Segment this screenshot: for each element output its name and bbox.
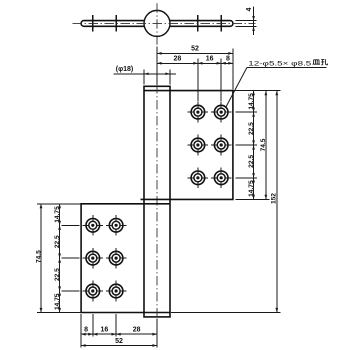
svg-text:152: 152 [271,193,278,204]
right plate screw hole row 2 col 1 (countersunk) [188,135,209,156]
svg-text:52: 52 [115,338,123,345]
dim 28 16 8 [157,62,233,64]
svg-text:14.75: 14.75 [248,93,255,110]
top view barrel circle [144,10,170,36]
top view horizontal centerline [73,22,256,24]
svg-text:8: 8 [84,326,88,333]
svg-text:22.5: 22.5 [248,155,255,168]
left plate screw hole row 1 col 1 (countersunk) [83,215,104,236]
svg-text:14.75: 14.75 [248,180,255,197]
barrel top cap line [144,90,170,92]
extension lines bottom [80,314,82,348]
extension plate top to right [233,90,281,92]
hole tick [220,15,222,31]
extension lines right rows [236,111,258,113]
svg-text:16: 16 [101,326,109,333]
svg-text:22.5: 22.5 [54,235,61,248]
barrel bottom cap line [144,312,170,314]
dim 74.5 right [265,91,267,200]
right plate screw hole row 3 col 1 (countersunk) [188,168,209,189]
svg-text:8: 8 [226,56,230,63]
extension left plate top [37,203,81,205]
left plate screw hole row 3 col 2 (countersunk) [106,281,127,302]
top view: leaf bar seen from above [81,21,233,27]
right plate screw hole row 1 col 1 (countersunk) [188,102,209,123]
svg-text:14.75: 14.75 [54,293,61,310]
extension lines hole columns (right) [197,59,199,102]
svg-text:28: 28 [174,56,182,63]
extension right plate bottom [236,198,270,200]
svg-text:52: 52 [191,46,199,53]
svg-text:74.5: 74.5 [35,250,42,263]
right plate screw hole row 1 col 2 (countersunk) [211,102,232,123]
left plate screw hole row 2 col 1 (countersunk) [83,248,104,269]
svg-text:22.5: 22.5 [54,268,61,281]
extension left plate bottom [37,312,81,314]
extension left plate bottom to right [171,312,281,314]
dim 8 16 28 bottom [81,333,157,335]
dim 52 top [157,52,233,54]
svg-text:28: 28 [133,326,141,333]
hole tick [197,15,199,31]
barrel (knuckle) outline [144,86,170,317]
svg-text:14.75: 14.75 [54,206,61,223]
left plate screw hole row 2 col 2 (countersunk) [106,248,127,269]
barrel centerline [156,84,158,319]
hole tick [115,15,117,31]
right plate screw hole row 3 col 2 (countersunk) [211,168,232,189]
extension line center [156,47,158,85]
svg-text:12-φ5.5× φ8.5: 12-φ5.5× φ8.5 [248,60,312,67]
left plate screw hole row 3 col 1 (countersunk) [83,281,104,302]
dim 152 overall [276,91,278,313]
svg-text:74.5: 74.5 [260,138,267,151]
svg-text:16: 16 [206,56,214,63]
dim 52 bottom [81,345,157,347]
left plate screw hole row 1 col 2 (countersunk) [106,215,127,236]
dimension 4 (leaf thickness) [236,20,257,22]
svg-text:4: 4 [246,7,253,11]
hole tick [92,15,94,31]
svg-text:22.5: 22.5 [248,122,255,135]
chain dim 14.75/22.5/22.5/14.75 left [59,204,61,313]
right plate screw hole row 2 col 2 (countersunk) [211,135,232,156]
extension lines left rows [62,224,80,226]
chain dim 14.75/22.5/22.5/14.75 right [253,91,255,200]
left leaf plate outline [81,204,170,313]
top view vertical centerline [156,3,158,46]
extension line right plate edge [232,49,234,90]
svg-text:(φ18): (φ18) [116,66,133,73]
right leaf plate outline [141,91,233,200]
dim 74.5 left [40,204,42,313]
